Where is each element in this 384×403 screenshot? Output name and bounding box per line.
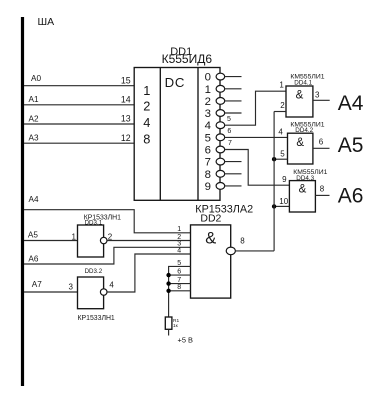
svg-text:5: 5 — [227, 116, 231, 123]
svg-text:12: 12 — [121, 133, 131, 143]
pin 3 label DD4.1 — [315, 91, 320, 100]
DD1 output 5 digit — [205, 132, 211, 144]
DD3.1 output inversion circle — [100, 237, 107, 243]
wire DD2 pin 5 tie-down to resistor — [169, 266, 191, 317]
svg-text:8: 8 — [205, 169, 211, 181]
wire stub DD1 output 3 — [225, 112, 242, 114]
svg-text:4: 4 — [143, 115, 150, 130]
wire DD4.3 output pin 8 — [315, 194, 329, 196]
wire A7 from bus to DD3.2 input — [24, 291, 78, 293]
DD1 output 1 inversion circle — [216, 85, 225, 92]
svg-text:5: 5 — [177, 260, 181, 267]
svg-text:1: 1 — [72, 233, 77, 242]
DD1 output 5 inversion circle — [216, 134, 225, 141]
svg-text:&: & — [296, 90, 304, 102]
and-gate U DD4.2 body — [288, 133, 313, 164]
svg-text:5: 5 — [280, 149, 285, 158]
svg-text:1: 1 — [177, 226, 181, 233]
pin 3 label DD3.2 — [69, 283, 74, 292]
svg-text:4: 4 — [205, 120, 211, 132]
node A1 label — [29, 95, 39, 104]
DD1 output 4 digit — [205, 120, 211, 132]
svg-text:4: 4 — [278, 128, 283, 137]
node A7 label — [32, 280, 42, 289]
svg-text:8: 8 — [177, 284, 181, 291]
svg-text:A4: A4 — [29, 195, 39, 204]
svg-text:7: 7 — [177, 277, 181, 284]
svg-text:0: 0 — [205, 72, 211, 84]
wire A1 from bus to DD1 — [24, 104, 134, 106]
svg-text:1: 1 — [205, 84, 211, 96]
svg-text:8: 8 — [240, 237, 245, 246]
svg-text:КР1533ЛН1: КР1533ЛН1 — [78, 315, 115, 322]
svg-text:DD4.3: DD4.3 — [296, 175, 314, 182]
wire DD4.1 output pin 3 — [313, 99, 330, 101]
net label ША — [38, 16, 55, 28]
DD1 output 3 inversion circle — [216, 110, 225, 117]
pin 8 label DD4.3 — [320, 185, 325, 194]
wire stub DD1 output 1 — [225, 88, 242, 90]
wire DD1 output 4 (pin 5) to DD4.1 pin 1 — [225, 91, 286, 125]
pin 4 label DD4.2 — [278, 128, 283, 137]
DD4.3 designator — [296, 175, 314, 182]
pin 1 label DD3.1 — [72, 233, 77, 242]
pin 5 label (DD1 output 4) — [227, 116, 231, 123]
DD4.2 part number КМ555ЛИ1 — [290, 121, 324, 128]
DD2 designator — [200, 212, 221, 224]
DD1 output 7 digit — [205, 157, 211, 169]
DD4.2 & symbol — [296, 137, 304, 149]
wire A4 from bus to DD2 pin 1 — [24, 210, 191, 233]
DD1 output 9 digit — [205, 181, 211, 193]
svg-text:DD2: DD2 — [200, 212, 221, 224]
wire DD3.1 output to DD2 pin 2 — [107, 240, 191, 242]
svg-text:7: 7 — [228, 140, 232, 147]
DD3.1 designator — [85, 220, 103, 227]
wire DD4.2 pin 5 from feedback line — [274, 158, 287, 160]
node A2 label — [29, 114, 39, 123]
DD1 input weight 4 — [143, 115, 150, 130]
pin 13 label (DD1 input) — [121, 114, 131, 124]
svg-text:DC: DC — [165, 75, 186, 90]
svg-text:3: 3 — [205, 108, 211, 120]
wire A6 from bus to DD2 pin 3 — [24, 247, 191, 264]
wire DD3.2 output to DD2 pin 4 — [107, 254, 191, 292]
svg-text:14: 14 — [121, 95, 131, 105]
svg-text:R1: R1 — [173, 318, 179, 324]
node A0 label — [31, 74, 41, 83]
svg-text:A5: A5 — [338, 134, 364, 157]
svg-text:&: & — [299, 184, 307, 196]
svg-text:6: 6 — [319, 138, 324, 147]
wire stub DD1 output 0 — [225, 76, 242, 78]
junction dot pin 8 tie — [166, 289, 170, 293]
DD1 output 8 inversion circle — [216, 170, 225, 177]
wire DD2 output to feedback line — [235, 250, 274, 252]
wire DD2 pin 6 — [169, 274, 191, 276]
svg-text:6: 6 — [205, 145, 211, 157]
DD1 output 3 digit — [205, 108, 211, 120]
wire stub DD1 output 2 — [225, 100, 242, 102]
svg-text:9: 9 — [282, 175, 287, 184]
wire DD4.3 pin 10 from feedback line — [274, 205, 289, 207]
DD1 input weight 2 — [143, 99, 150, 114]
pin 4 label DD2 — [177, 247, 181, 254]
DD3.2 part number КР1533ЛН1 — [78, 315, 115, 322]
DD4.1 designator — [294, 79, 312, 86]
pin 4 label DD3.2 — [109, 281, 114, 290]
pin 15 label (DD1 input) — [121, 75, 131, 85]
svg-text:A7: A7 — [32, 280, 42, 289]
svg-text:5: 5 — [205, 132, 211, 144]
pin 8 label DD2 output — [240, 237, 245, 246]
pin 2 label DD4.1 — [280, 101, 285, 110]
wire stub DD1 output 8 — [225, 173, 242, 175]
DD1 output 6 digit — [205, 145, 211, 157]
svg-text:DD4.2: DD4.2 — [295, 127, 313, 134]
power label +5 В — [178, 336, 193, 345]
svg-text:15: 15 — [121, 75, 131, 85]
pin 6 label DD2 — [177, 269, 181, 276]
svg-text:7: 7 — [205, 157, 211, 169]
DD1 reference designator — [170, 46, 192, 58]
svg-text:A1: A1 — [29, 95, 39, 104]
and-gate U DD4.3 body — [289, 181, 315, 212]
and-gate U DD4.1 body — [286, 86, 313, 117]
DD4.1 part number КМ555ЛИ1 — [290, 74, 324, 81]
svg-text:4: 4 — [109, 281, 114, 290]
node A6 output label — [338, 185, 364, 208]
svg-text:3: 3 — [315, 91, 320, 100]
DD1 input weight 8 — [143, 132, 150, 147]
inverter DD3.1 body — [78, 225, 104, 257]
wire DD1 output 5 (pin 6) to DD4.2 pin 4 — [225, 136, 288, 138]
pin 9 label DD4.3 — [282, 175, 287, 184]
pin 5 label DD2 — [177, 260, 181, 267]
svg-text:6: 6 — [227, 128, 231, 135]
svg-text:A3: A3 — [29, 134, 39, 143]
wire DD4.2 output pin 6 — [313, 147, 330, 149]
pin 1 label DD4.1 — [279, 81, 284, 90]
resistor R1 body — [165, 317, 172, 329]
wire DD2 pin 7 — [169, 283, 191, 285]
svg-text:2: 2 — [280, 101, 285, 110]
pin 12 label (DD1 input) — [121, 133, 131, 143]
svg-text:+5 В: +5 В — [178, 336, 193, 345]
wire feedback from DD2 output up to DD4.1 pin 2 — [273, 112, 275, 251]
svg-text:2: 2 — [143, 99, 150, 114]
pin 2 label DD2 — [177, 234, 181, 241]
svg-text:DD3.2: DD3.2 — [85, 268, 103, 275]
svg-text:DD4.1: DD4.1 — [294, 79, 312, 86]
wire DD4.1 pin 2 from feedback line — [274, 111, 286, 113]
DD1 output 2 digit — [205, 96, 211, 108]
DD1 output 9 inversion circle — [216, 183, 225, 190]
DD4.1 & symbol — [296, 90, 304, 102]
pin 1 label DD2 — [177, 226, 181, 233]
wire A5 from bus to DD3.1 input — [24, 240, 78, 242]
DD2 & symbol — [205, 229, 216, 247]
junction dot pin 7 tie — [166, 281, 170, 285]
wire A0 from bus to DD1 — [24, 85, 134, 87]
DD2 part number КР1533ЛА2 — [195, 203, 253, 215]
DD4.3 part number КМ555ЛИ1 — [293, 169, 327, 176]
svg-text:1: 1 — [143, 83, 150, 98]
node A4 label — [29, 195, 39, 204]
pin 5 label DD4.2 — [280, 149, 285, 158]
DD1 function label DC — [165, 75, 186, 90]
svg-text:3: 3 — [69, 283, 74, 292]
decoder DD1 body — [134, 68, 220, 201]
DD3.1 part number КР1533ЛН1 — [84, 215, 121, 222]
DD3.2 output inversion circle — [100, 289, 107, 295]
wire resistor to +5V — [168, 329, 170, 335]
wire stub DD1 output 7 — [225, 161, 242, 163]
svg-text:10: 10 — [279, 197, 288, 206]
svg-text:A2: A2 — [29, 114, 39, 123]
DD2 output inversion circle — [226, 247, 235, 255]
node A4 output label — [338, 92, 364, 115]
svg-text:13: 13 — [121, 114, 131, 124]
DD4.2 designator — [295, 127, 313, 134]
node A5 label — [28, 230, 38, 239]
pin 7 label (DD1 output 6) — [228, 140, 232, 147]
DD1 part number К555ИД6 — [162, 52, 213, 66]
svg-text:2: 2 — [205, 96, 211, 108]
DD1 input weight 1 — [143, 83, 150, 98]
DD1 output 0 digit — [205, 72, 211, 84]
svg-text:9: 9 — [205, 181, 211, 193]
wire A3 from bus to DD1 — [24, 142, 134, 144]
pin 8 label DD2 — [177, 284, 181, 291]
DD4.3 & symbol — [299, 184, 307, 196]
pin 7 label DD2 — [177, 277, 181, 284]
wire DD2 pin 8 — [169, 290, 191, 292]
svg-text:4: 4 — [177, 247, 181, 254]
pin 6 label DD4.2 — [319, 138, 324, 147]
inverter DD3.2 body — [78, 277, 104, 309]
wire A2 from bus to DD1 — [24, 123, 134, 125]
svg-text:&: & — [205, 229, 216, 247]
pin 10 label DD4.3 — [279, 197, 288, 206]
junction dot at DD4.3 pin 10 — [272, 204, 276, 208]
svg-text:A0: A0 — [31, 74, 41, 83]
junction dot pin 6 tie — [166, 273, 170, 277]
node A3 label — [29, 134, 39, 143]
svg-text:1: 1 — [279, 81, 284, 90]
wire stub DD1 output 9 — [225, 185, 242, 187]
junction dot at DD4.2 pin 5 — [272, 157, 276, 161]
node A6 label — [28, 254, 38, 263]
svg-text:A6: A6 — [338, 185, 364, 208]
nand-gate DD2 body — [191, 225, 231, 298]
DD1 output 2 inversion circle — [216, 98, 225, 105]
svg-text:6: 6 — [177, 269, 181, 276]
resistor R1 value label — [173, 318, 179, 329]
bus ША (address bus) — [21, 17, 24, 386]
svg-text:A5: A5 — [28, 230, 38, 239]
wire DD1 output 6 (pin 7) to DD4.3 pin 9 — [225, 150, 290, 186]
DD1 output 4 inversion circle — [216, 122, 225, 129]
DD1 output 1 digit — [205, 84, 211, 96]
pin 2 label DD3.1 — [108, 232, 113, 241]
svg-text:К555ИД6: К555ИД6 — [162, 52, 213, 66]
DD1 output 8 digit — [205, 169, 211, 181]
svg-text:8: 8 — [320, 185, 325, 194]
node A5 output label — [338, 134, 364, 157]
svg-text:&: & — [296, 137, 304, 149]
DD1 output 7 inversion circle — [216, 158, 225, 165]
pin 3 label DD2 — [177, 241, 181, 248]
DD3.2 designator — [85, 268, 103, 275]
pin 14 label (DD1 input) — [121, 95, 131, 105]
svg-text:A4: A4 — [338, 92, 364, 115]
svg-text:DD3.1: DD3.1 — [85, 220, 103, 227]
svg-text:A6: A6 — [28, 254, 38, 263]
pin 6 label (DD1 output 5) — [227, 128, 231, 135]
DD1 output 6 inversion circle — [216, 146, 225, 153]
svg-text:ША: ША — [38, 16, 55, 28]
svg-text:8: 8 — [143, 132, 150, 147]
DD1 output 0 inversion circle — [216, 73, 225, 80]
